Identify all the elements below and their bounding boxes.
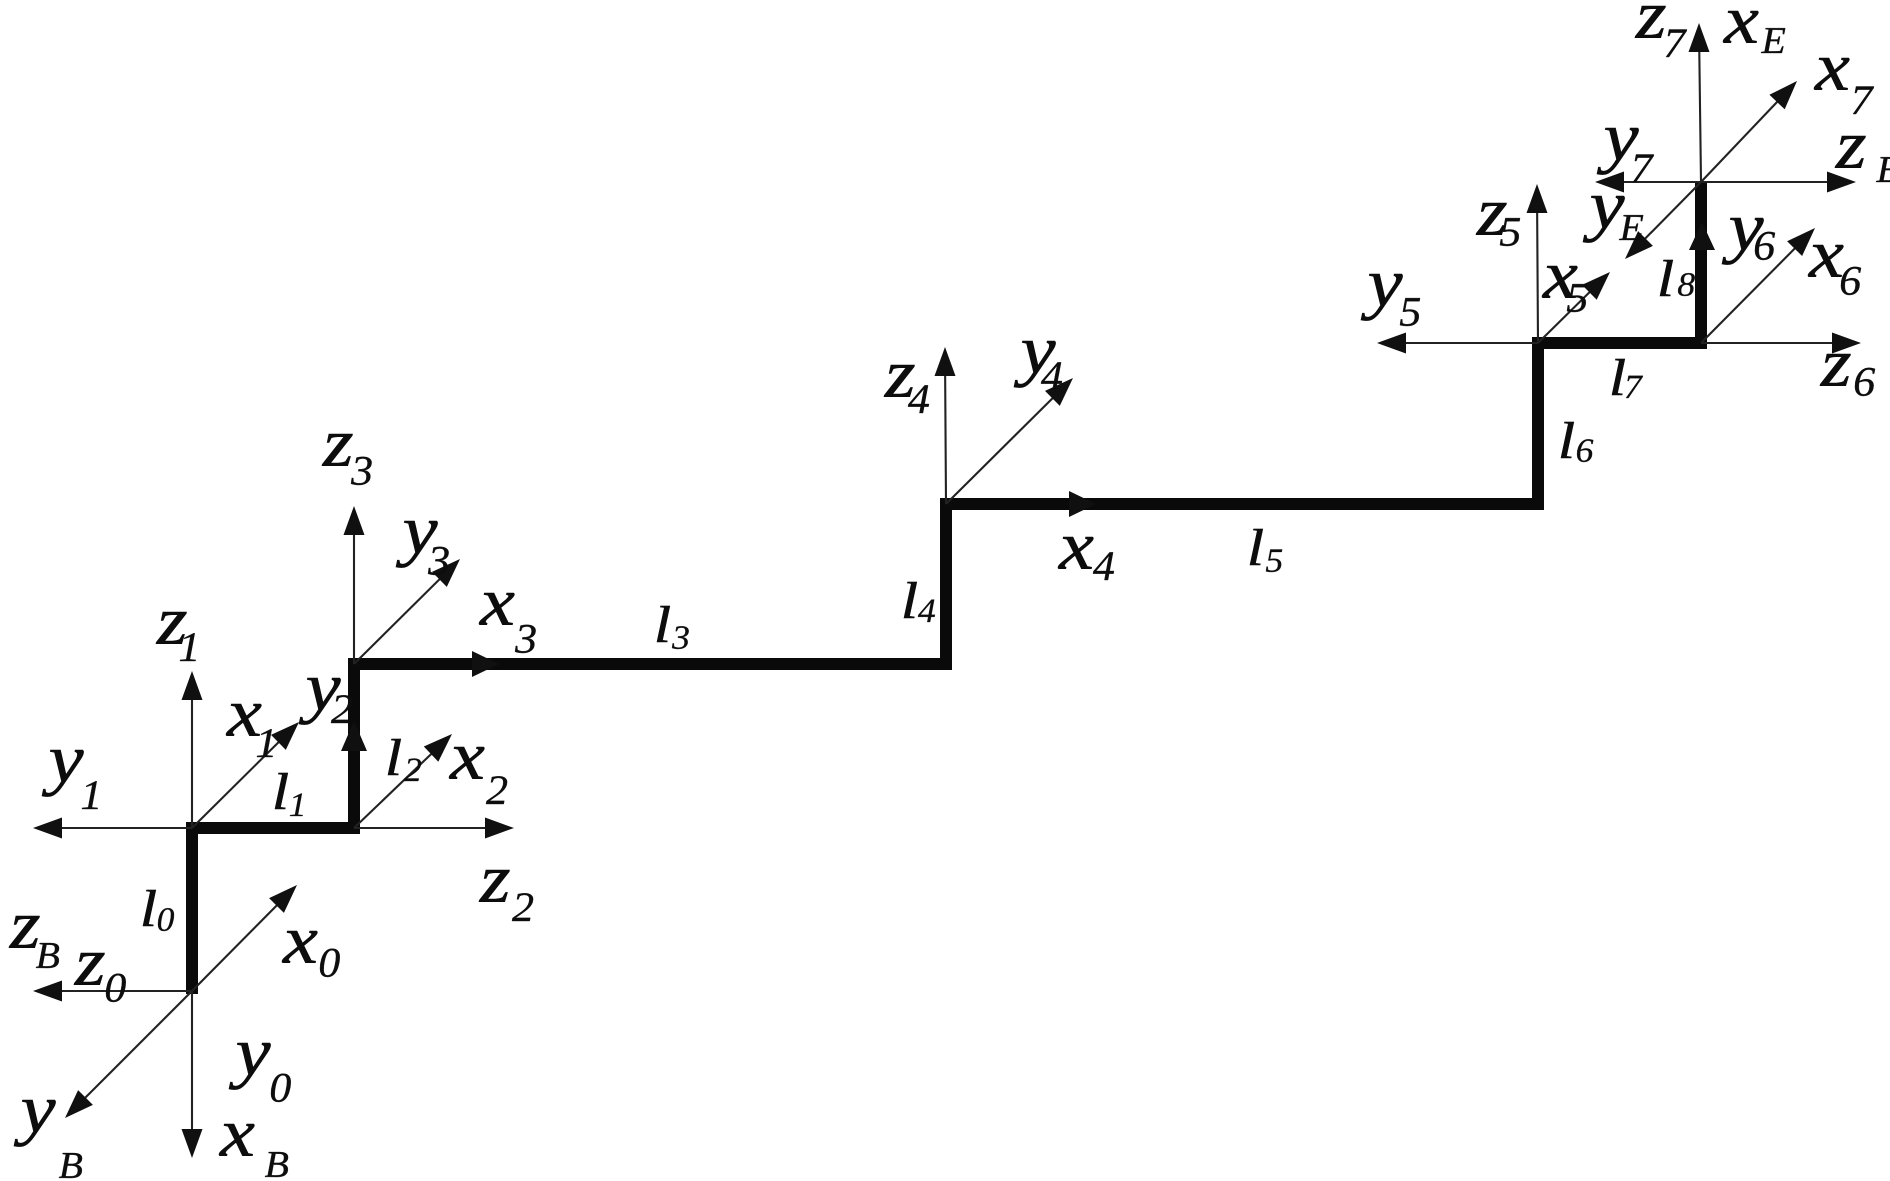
label x_7 (1814, 58, 1874, 114)
label x_1 (226, 704, 273, 757)
label l_4 (904, 582, 935, 622)
label l_3 (657, 606, 689, 649)
label x_3 (479, 593, 536, 653)
label z_6 (1820, 354, 1875, 396)
axis y_0 / x_B (down arrow at base origin) (182, 991, 203, 1158)
manipulator link chain l0..l8 (thick polyline) (192, 182, 1701, 994)
axis y_E (down-left diagonal arrow) (1625, 182, 1701, 259)
label y_1 (42, 750, 98, 809)
axis z_6 (right arrow, frame 6) (1701, 333, 1861, 354)
label y_6 (1722, 218, 1775, 265)
axis z_5 (up arrow, frame 5) (1527, 184, 1548, 343)
arrowhead of y_2 on link l2 (341, 721, 367, 751)
label z_0 (74, 953, 126, 1002)
axis x_7 (up-right diagonal arrow) (1701, 81, 1797, 182)
label z_4 (884, 365, 929, 413)
label x_2 (449, 747, 507, 804)
label z_1 (156, 612, 196, 661)
axis y_1 (left arrow, frame 1) (33, 818, 192, 839)
axis z_1 (up arrow, frame 1) (182, 671, 203, 828)
label z_B (9, 916, 59, 968)
label z_2 (479, 870, 533, 921)
axis z_E (right arrow, end-effector) (1701, 172, 1856, 193)
axis z_B / z_0 (left arrow at base origin) (33, 981, 192, 1002)
label y_B (14, 1100, 82, 1178)
arrowhead of x_4 on link l5 (1069, 491, 1096, 517)
label z_7 (1635, 6, 1687, 57)
label y_4 (1014, 341, 1062, 390)
label z_E (1835, 136, 1890, 182)
label x_E (1723, 11, 1785, 53)
label x_6 (1808, 245, 1861, 295)
label l_1 (275, 773, 303, 816)
axis x_5 (short diagonal arrow, frame 5) (1538, 272, 1610, 343)
axis z_3 (up arrow, frame 3) (344, 506, 365, 664)
label y_0 (229, 1043, 291, 1102)
label l_6 (1561, 422, 1593, 462)
axis x_2 (diagonal arrow, frame 2) (354, 734, 452, 828)
label l_2 (388, 739, 421, 781)
label x_5 (1542, 266, 1587, 312)
label l_5 (1250, 529, 1282, 572)
label y_2 (299, 678, 352, 725)
label z_3 (322, 434, 372, 485)
label l_8 (1660, 260, 1695, 296)
axis x_6 (diagonal arrow, frame 6) (1701, 228, 1815, 343)
label z_5 (1476, 203, 1520, 246)
axis z_4 (up arrow, frame 4) (935, 347, 956, 504)
axis y_7 (left arrow, end-effector) (1595, 172, 1701, 193)
arrowhead of y_6 on link l8 (1689, 222, 1715, 250)
axis y_4 (diagonal arrow, frame 4) (946, 378, 1073, 504)
axis z_2 (right arrow, frame 2) (354, 818, 514, 839)
label y_E (1583, 196, 1643, 243)
axis y_3 (diagonal arrow, frame 3) (354, 559, 460, 664)
axis x_0 (up-right diagonal arrow) (192, 885, 297, 991)
label x_0 (282, 931, 340, 977)
label y_3 (396, 521, 449, 575)
label x_4 (1058, 537, 1114, 580)
axis z_7 / x_E (up arrow, end-effector) (1689, 23, 1710, 182)
label l_7 (1612, 359, 1643, 398)
label y_5 (1361, 274, 1420, 326)
label x_B (219, 1124, 288, 1177)
label y_7 (1597, 128, 1654, 182)
axis y_5 (left arrow, frame 5) (1377, 333, 1538, 354)
label l_0 (143, 890, 174, 931)
arrowhead of x_3 on link l3 (472, 651, 499, 677)
axis x_1 (diagonal arrow, frame 1) (192, 722, 299, 828)
axis y_B (down-left diagonal arrow) (65, 991, 192, 1118)
